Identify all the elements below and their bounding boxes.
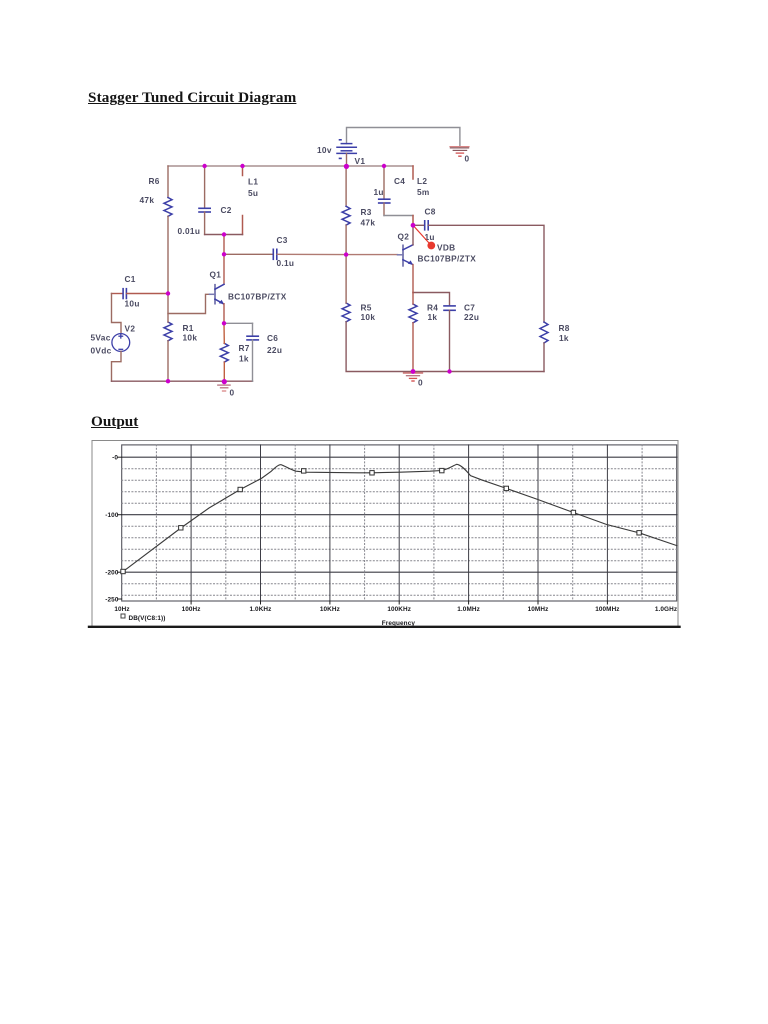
wire source bottom to rail (112, 351, 122, 381)
svg-text:R6: R6 (149, 176, 160, 186)
wire R6 to node (167, 216, 169, 293)
svg-text:0: 0 (465, 154, 470, 164)
svg-text:1.0GHz: 1.0GHz (655, 606, 677, 613)
capacitor C4 (379, 166, 390, 216)
svg-text:0.1u: 0.1u (277, 258, 295, 268)
svg-text:10k: 10k (183, 333, 198, 343)
svg-text:BC107BP/ZTX: BC107BP/ZTX (418, 254, 477, 264)
node C3 tap (222, 252, 226, 256)
svg-text:C4: C4 (394, 176, 405, 186)
svg-text:100MHz: 100MHz (595, 606, 619, 613)
svg-text:47k: 47k (361, 218, 376, 228)
node R7 ground (222, 379, 227, 384)
wire Q2 emitter down (412, 265, 414, 293)
svg-text:Q2: Q2 (398, 232, 410, 242)
svg-text:BC107BP/ZTX: BC107BP/ZTX (228, 292, 287, 302)
svg-text:-200: -200 (105, 570, 119, 577)
svg-text:10Hz: 10Hz (114, 606, 129, 613)
node C4 top (382, 164, 386, 168)
output heading (91, 413, 138, 431)
svg-text:5u: 5u (248, 188, 258, 198)
junction dots (166, 164, 452, 384)
svg-text:10u: 10u (125, 299, 140, 309)
wire R1 top (167, 294, 169, 323)
node Q2 ground (411, 369, 416, 374)
wire R3 branch (345, 166, 347, 206)
svg-text:1.0MHz: 1.0MHz (457, 606, 480, 613)
wire R3 bottom (345, 225, 347, 255)
wire R4 top (412, 293, 414, 305)
transistor Q2 (398, 245, 414, 266)
wire Q1 emitter down (223, 304, 225, 324)
svg-text:1k: 1k (559, 333, 569, 343)
node Q2 base (344, 252, 348, 256)
node C2-L1 bottom (222, 232, 226, 236)
node C7 bottom (447, 369, 451, 373)
svg-text:Frequency: Frequency (382, 620, 416, 627)
capacitor C7 (444, 306, 455, 372)
wire R5 top (345, 255, 347, 303)
svg-text:C6: C6 (267, 333, 278, 343)
figure bottom black border (89, 626, 680, 628)
capacitor C3 (273, 249, 277, 259)
title heading (88, 89, 296, 107)
wire C8 run (413, 224, 424, 226)
svg-text:V1: V1 (355, 156, 366, 166)
marker VDB (413, 225, 435, 249)
wire R6 branch vertical (167, 166, 169, 198)
node C8-VDB (411, 223, 416, 228)
ground 0 top-right (450, 147, 469, 157)
wire top rail (168, 165, 413, 167)
gridlines solid vertical decades (191, 445, 607, 601)
x axis labels (114, 606, 677, 613)
wire C4 bottom to L2 (384, 215, 413, 217)
curve DB(V(C8:1)) (122, 464, 677, 572)
capacitor C6 (247, 323, 258, 381)
svg-text:R1: R1 (183, 323, 194, 333)
svg-text:R4: R4 (427, 303, 438, 313)
svg-text:10KHz: 10KHz (320, 606, 340, 613)
figure outer box (92, 441, 678, 627)
wire C8 to R8 top (429, 225, 544, 322)
svg-text:C2: C2 (221, 205, 232, 215)
svg-text:R8: R8 (559, 323, 570, 333)
svg-text:5m: 5m (417, 187, 430, 197)
transistor Q1 (210, 284, 225, 304)
svg-text:C8: C8 (425, 207, 436, 217)
svg-text:Q1: Q1 (210, 270, 222, 280)
legend marker (121, 614, 125, 618)
svg-text:DB(V(C8:1)): DB(V(C8:1)) (129, 615, 166, 622)
svg-text:-100: -100 (105, 512, 119, 519)
svg-text:0: 0 (418, 378, 423, 388)
resistor R8 (540, 322, 548, 343)
node C2 top (202, 164, 206, 168)
svg-text:R7: R7 (239, 343, 250, 353)
plot frame (122, 445, 677, 601)
svg-text:1u: 1u (374, 187, 384, 197)
svg-text:10v: 10v (317, 145, 332, 155)
wire Q2 collector (412, 225, 414, 245)
svg-text:5Vac: 5Vac (91, 333, 111, 343)
y axis labels (105, 455, 119, 604)
svg-text:0: 0 (230, 388, 235, 398)
svg-text:10k: 10k (361, 312, 376, 322)
x axis ticks (191, 601, 607, 604)
svg-text:47k: 47k (140, 195, 155, 205)
svg-text:0Vdc: 0Vdc (91, 346, 112, 356)
y axis ticks (118, 457, 122, 599)
svg-text:10MHz: 10MHz (528, 606, 549, 613)
wire R8 bottom (543, 343, 545, 372)
node R1 bottom (166, 379, 170, 383)
svg-text:1k: 1k (239, 354, 249, 364)
wire bottom rail left (112, 380, 253, 382)
inductor L1 (242, 166, 244, 235)
wire R1 bottom (167, 341, 169, 381)
svg-text:C7: C7 (464, 303, 475, 313)
svg-text:0.01u: 0.01u (178, 226, 201, 236)
resistor R4 (409, 304, 417, 323)
gridlines dotted vertical half-decades (156, 445, 642, 601)
wire collector line Q1 (223, 235, 225, 285)
svg-text:-250: -250 (105, 597, 119, 604)
node Q1 emitter (222, 321, 226, 325)
node V1 bottom (344, 164, 349, 169)
svg-text:1.0KHz: 1.0KHz (250, 606, 272, 613)
svg-text:C1: C1 (125, 274, 136, 284)
svg-text:L1: L1 (248, 177, 258, 187)
ground 0 under Q2 (404, 373, 423, 381)
svg-text:100Hz: 100Hz (182, 606, 201, 613)
resistor R6 (164, 198, 172, 217)
resistor R3 (342, 206, 350, 225)
wire R7 top (223, 323, 225, 343)
gridlines dotted horizontal (122, 469, 677, 596)
wire R7 bottom (223, 362, 225, 381)
wire C3 run (224, 253, 273, 255)
wire emitter node to C6 (224, 322, 253, 324)
wire C3 to Q2 base (277, 253, 397, 255)
svg-text:1k: 1k (428, 312, 438, 322)
svg-text:R3: R3 (361, 207, 372, 217)
node C1-R1-R6 (166, 291, 170, 295)
svg-text:22u: 22u (267, 345, 282, 355)
svg-text:C3: C3 (277, 235, 288, 245)
ground 0 under R7 (218, 385, 230, 391)
inductor L2 (412, 166, 414, 225)
battery V1 (337, 140, 356, 159)
svg-text:L2: L2 (417, 176, 427, 186)
capacitor C2 (199, 166, 210, 235)
wire R4 bottom (412, 323, 414, 372)
wire C2/L1 bottom joining (205, 234, 243, 236)
svg-text:R5: R5 (361, 303, 372, 313)
wire battery to rail (346, 153, 348, 166)
svg-text:22u: 22u (464, 312, 479, 322)
resistor R5 (342, 303, 350, 322)
capacitor C1 (112, 289, 169, 299)
wire R5 bottom + rail right (346, 322, 544, 372)
curve data point markers (121, 468, 642, 573)
wire Q1 base (168, 294, 210, 313)
source V2 (112, 334, 130, 352)
svg-text:VDB: VDB (437, 243, 455, 253)
gridlines solid horizontal (122, 457, 677, 572)
node L1 top (240, 164, 244, 168)
svg-text:-0: -0 (112, 455, 118, 462)
svg-text:V2: V2 (125, 324, 136, 334)
resistor R7 (220, 343, 228, 362)
wire left loop with source (112, 294, 122, 334)
svg-text:100KHz: 100KHz (387, 606, 411, 613)
wire emitter to C7 top (413, 293, 450, 306)
capacitor C8 (425, 221, 429, 230)
resistor R1 (164, 322, 172, 341)
wire battery top loop to ground (347, 128, 460, 147)
